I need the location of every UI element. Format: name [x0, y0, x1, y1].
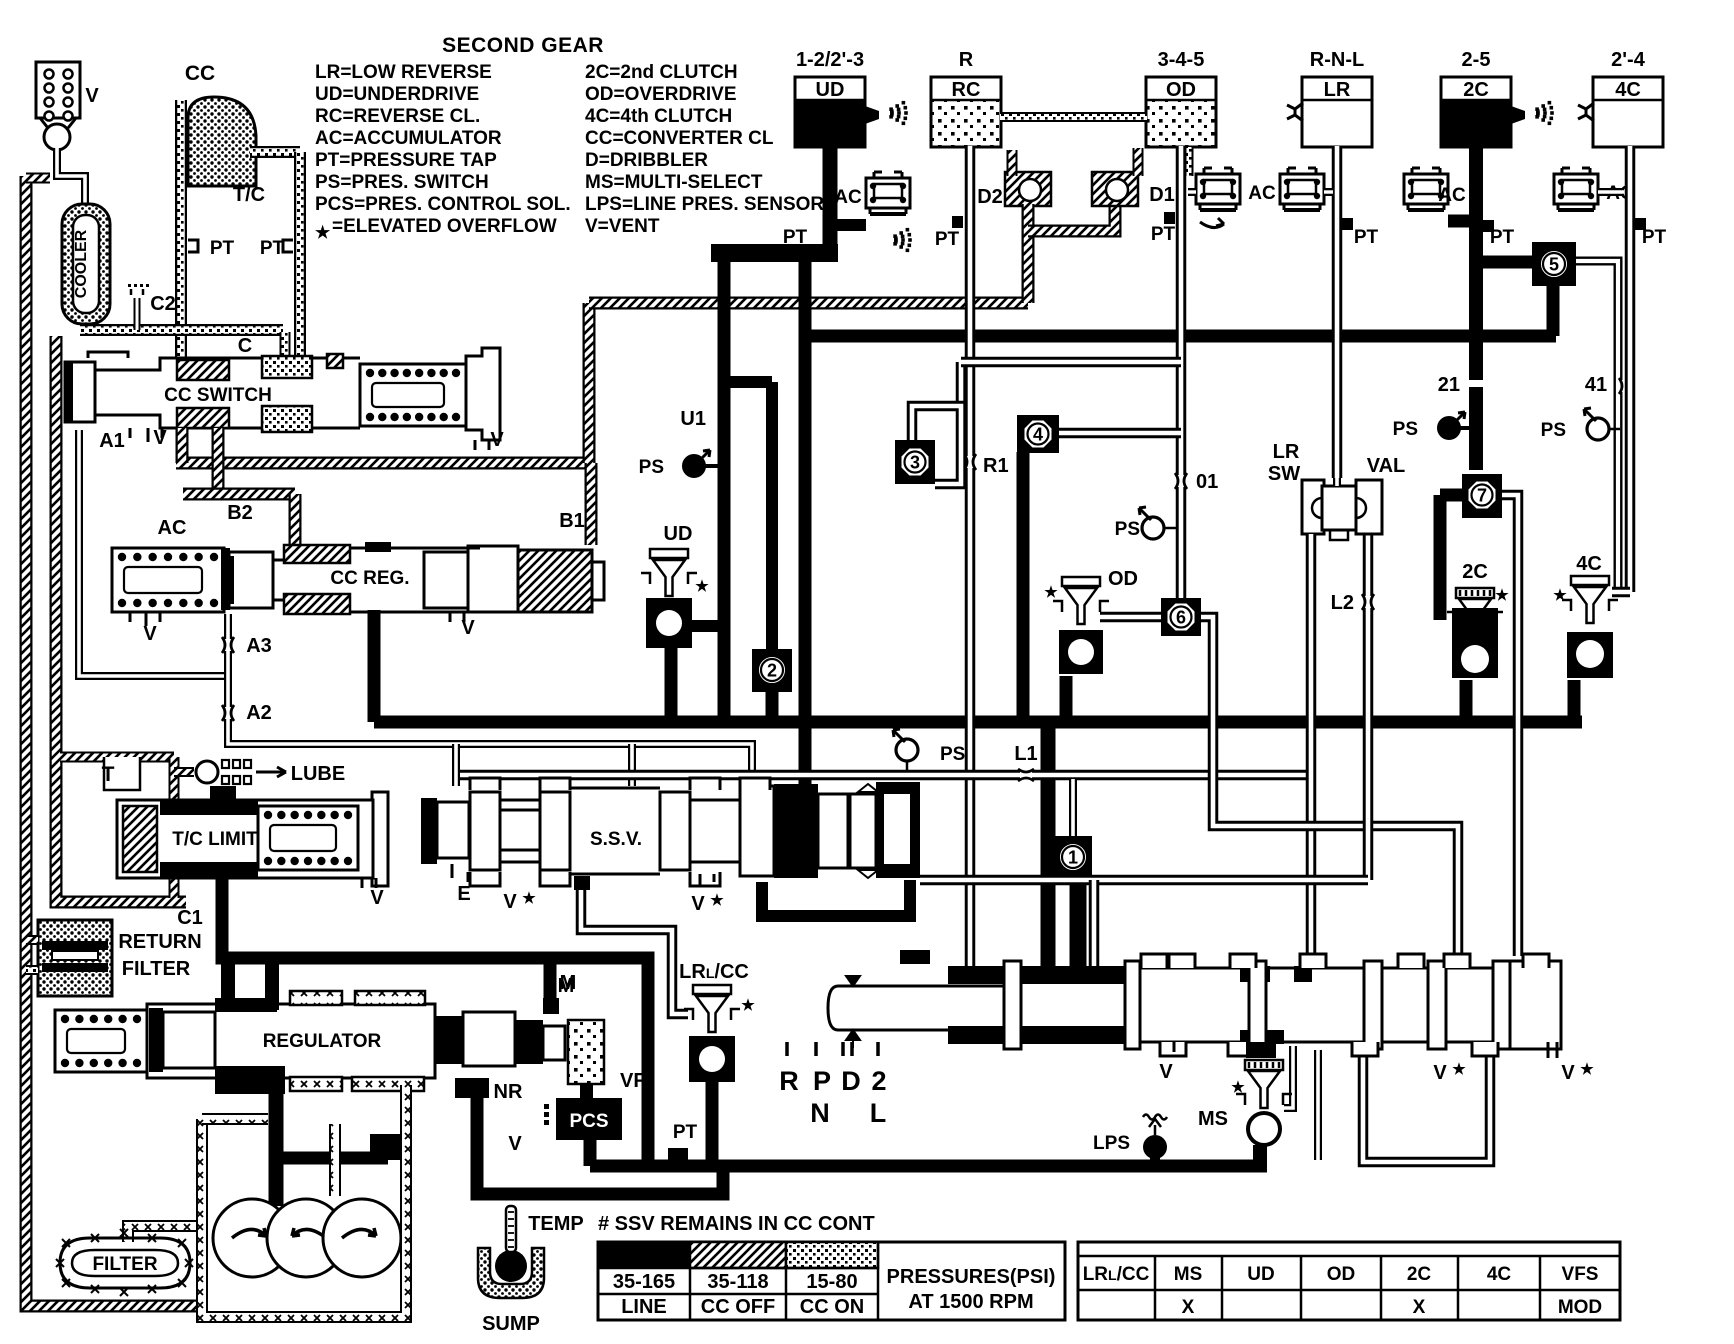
svg-text:PT: PT: [783, 227, 808, 248]
svg-text:REGULATOR: REGULATOR: [263, 1031, 382, 1052]
svg-text:MOD: MOD: [1558, 1297, 1602, 1318]
svg-text:2C: 2C: [1462, 561, 1488, 583]
svg-text:AC: AC: [158, 517, 187, 539]
svg-text:L1: L1: [1014, 743, 1037, 765]
end flange CC switch: [466, 348, 500, 440]
wire A3/A2 vertical: [228, 614, 752, 780]
svg-text:UD: UD: [816, 79, 845, 101]
pump pressure feed: [269, 1078, 284, 1206]
svg-text:7: 7: [1477, 486, 1487, 506]
accumulator AC by 4C: [1554, 174, 1598, 204]
svg-text:X: X: [1413, 1297, 1426, 1318]
wire LR AC stub: [1324, 188, 1333, 196]
wire UD sol drop: [665, 648, 678, 722]
torque converter dome T/C: [188, 97, 256, 186]
svg-text:FILTER: FILTER: [92, 1254, 157, 1275]
wire vent to cooler: [57, 148, 85, 206]
wire SSV feed vertical: [799, 253, 812, 790]
svg-text:4C: 4C: [1576, 553, 1602, 575]
svg-text:LRL/CC: LRL/CC: [679, 961, 749, 983]
PCS pressure control solenoid: [556, 1098, 622, 1140]
curl under OD AC: [1200, 218, 1224, 228]
wire 3-loop riser: [956, 362, 967, 406]
hatched pipe second return line: [56, 336, 186, 902]
svg-text:D: D: [841, 1066, 861, 1096]
wire C2 stub: [134, 298, 141, 330]
thick stubs regulator top: [221, 958, 235, 1006]
wire 2C line to 7: [1469, 336, 1483, 470]
svg-text:A2: A2: [246, 702, 272, 724]
manual valve stem: [828, 986, 1004, 1030]
wire U1 vertical: [718, 262, 731, 722]
valve check 2: [752, 649, 792, 692]
wire L2 to valve: [920, 875, 1368, 886]
nozzle left of 4C: [1578, 103, 1594, 121]
svg-text:★: ★: [315, 223, 331, 242]
legend table left: [598, 1242, 1065, 1320]
svg-text:PS: PS: [1115, 519, 1140, 540]
dotted pipe right channel down to CC switch: [294, 152, 306, 360]
node R1: [964, 456, 976, 468]
valve CC SWITCH body: [65, 358, 482, 428]
node 21: [1468, 380, 1484, 387]
node A2: [222, 707, 234, 719]
svg-text:2C=2nd CLUTCH: 2C=2nd CLUTCH: [585, 62, 738, 83]
svg-text:A3: A3: [246, 635, 272, 657]
spools CC REG right: [424, 552, 468, 608]
svg-text:2: 2: [871, 1066, 886, 1096]
SSV black section: [774, 784, 818, 878]
SSV right cap: [876, 782, 920, 878]
svg-text:CC=CONVERTER CL: CC=CONVERTER CL: [585, 128, 774, 149]
wire NR drop: [477, 1078, 723, 1194]
manual valve port stubs: [900, 950, 930, 964]
svg-text:E: E: [457, 883, 470, 905]
svg-text:V: V: [1433, 1062, 1447, 1084]
solenoid VF filter: [568, 1020, 604, 1084]
svg-text:4C=4th CLUTCH: 4C=4th CLUTCH: [585, 106, 732, 127]
svg-text:4: 4: [1033, 425, 1043, 445]
valve check 4: [1017, 415, 1059, 453]
svg-text:UD: UD: [1247, 1264, 1274, 1285]
svg-text:X: X: [1182, 1297, 1195, 1318]
cooler: [62, 204, 110, 324]
svg-text:L: L: [870, 1098, 887, 1128]
wire 4C housing to bus: [1568, 680, 1581, 716]
svg-text:PT: PT: [673, 1122, 698, 1143]
dribbler D1 block: [1092, 172, 1138, 206]
wire 5 drop to bus: [1547, 284, 1560, 336]
svg-text:★: ★: [695, 578, 709, 595]
hatch block CC REG bottom: [284, 594, 350, 614]
hatched pipe far-left return line: [26, 176, 208, 1306]
node A3: [222, 639, 234, 651]
svg-text:3: 3: [910, 453, 920, 473]
wire LPS stub: [1150, 1155, 1160, 1166]
svg-text:PS: PS: [1393, 419, 1418, 440]
hatched pipe D-line to D2: [589, 297, 1028, 310]
hatched pipe riser CC switch to B2: [176, 428, 189, 463]
wire A1 line: [79, 430, 228, 676]
clutch 2C: [1441, 100, 1511, 147]
svg-text:PS=PRES. SWITCH: PS=PRES. SWITCH: [315, 172, 489, 193]
wire C1 thick: [222, 878, 648, 1166]
svg-text:35-165: 35-165: [613, 1271, 675, 1293]
svg-text:TEMP: TEMP: [528, 1213, 584, 1235]
svg-text:41: 41: [1585, 374, 1607, 396]
manual valve end chamber: [1510, 961, 1561, 1049]
svg-text:OD: OD: [1327, 1264, 1356, 1285]
clutch 4C: [1593, 77, 1663, 147]
hatch stub CC switch: [327, 354, 343, 368]
svg-text:C2: C2: [150, 293, 176, 315]
clutch OD: [1146, 100, 1216, 147]
svg-text:PT: PT: [1151, 224, 1176, 245]
svg-text:R: R: [779, 1066, 799, 1096]
pressure switch PS on O1 line: [1142, 517, 1164, 539]
svg-text:AT 1500 RPM: AT 1500 RPM: [908, 1291, 1033, 1313]
wire LR drop: [1332, 146, 1343, 478]
manual valve bottom ports: [1160, 1042, 1186, 1056]
svg-text:LINE: LINE: [621, 1296, 667, 1318]
dotted pipe cooler to CC switch: [80, 324, 283, 336]
wire 7 to 2C sol: [1440, 489, 1462, 502]
sump: [478, 1248, 544, 1298]
svg-text:NR: NR: [494, 1081, 523, 1103]
wire ball4 drop: [1017, 452, 1030, 722]
pump 1: [213, 1199, 291, 1277]
svg-text:B2: B2: [227, 502, 253, 524]
svg-text:LR: LR: [1273, 441, 1300, 463]
svg-text:PS: PS: [940, 744, 965, 765]
svg-text:AC: AC: [834, 187, 862, 208]
svg-text:FILTER: FILTER: [122, 958, 191, 980]
svg-text:A1: A1: [99, 430, 125, 452]
hatched T enclosure: [60, 752, 174, 763]
svg-text:CC ON: CC ON: [800, 1296, 864, 1318]
svg-text:PCS: PCS: [569, 1111, 608, 1132]
svg-text:V: V: [691, 893, 705, 915]
svg-text:SUMP: SUMP: [482, 1313, 540, 1335]
dotted block CC switch top: [262, 356, 312, 378]
sprayer right of 2C: [1511, 106, 1525, 124]
accumulator AC by OD: [1196, 174, 1240, 204]
wire 7 right drop: [1501, 495, 1518, 956]
svg-text:5: 5: [1549, 255, 1559, 275]
wire MS drop: [1253, 1145, 1267, 1166]
node O1: [1175, 475, 1187, 487]
wire UD sol link: [692, 620, 718, 632]
REGULATOR right blocks: [435, 1016, 463, 1064]
filter capsule: [60, 1238, 190, 1288]
xhatch stubs REGULATOR top: [290, 991, 342, 1005]
svg-text:D2: D2: [977, 186, 1003, 208]
spring T/C LIMIT: [258, 806, 358, 870]
dotted pipe CC left wall: [175, 100, 187, 362]
svg-text:★: ★: [1580, 1061, 1594, 1078]
hatched pipe CC switch lower riser: [212, 428, 225, 494]
wire valve drop to bus: [1314, 1050, 1322, 1160]
pressure switch PS on L1: [896, 739, 918, 761]
svg-text:LUBE: LUBE: [291, 763, 345, 785]
wire 5 to 41 line: [1575, 261, 1618, 592]
wire O1 drop: [1176, 146, 1187, 598]
SSV recirculation loop: [762, 880, 910, 916]
svg-text:C1: C1: [177, 907, 203, 929]
port M: [543, 998, 559, 1014]
svg-text:LR=LOW REVERSE: LR=LOW REVERSE: [315, 62, 492, 83]
svg-text:OD=OVERDRIVE: OD=OVERDRIVE: [585, 84, 737, 105]
svg-text:# SSV REMAINS IN CC CONT: # SSV REMAINS IN CC CONT: [598, 1213, 875, 1235]
wire main bus: [374, 716, 1582, 729]
svg-text:2'-4: 2'-4: [1611, 49, 1646, 71]
spray under UD AC: [893, 234, 897, 238]
svg-text:SECOND GEAR: SECOND GEAR: [442, 34, 604, 57]
svg-text:CC REG.: CC REG.: [330, 568, 409, 589]
svg-text:2C: 2C: [1463, 79, 1489, 101]
svg-text:V: V: [1561, 1062, 1575, 1084]
svg-text:MS: MS: [1174, 1264, 1203, 1285]
selector ticks: [785, 1042, 789, 1056]
svg-text:21: 21: [1438, 374, 1460, 396]
svg-text:T: T: [102, 763, 115, 786]
svg-text:CC OFF: CC OFF: [701, 1296, 775, 1318]
wire OD sol drop: [1060, 676, 1073, 722]
svg-text:PS: PS: [639, 457, 664, 478]
wire manual valve feed: [1041, 722, 1056, 966]
svg-text:2: 2: [767, 661, 777, 681]
accumulator AC by UD: [866, 178, 910, 208]
wire 2C clutch drop: [1469, 146, 1483, 470]
wire L1: [460, 770, 1311, 781]
pressure switch PS on U1: [683, 455, 705, 477]
clutch RC: [931, 100, 1001, 147]
hatched pipe D2 to D1: [1028, 206, 1115, 231]
svg-text:L2: L2: [1331, 592, 1354, 614]
valve check 3: [895, 440, 935, 484]
wire 4C drop: [1625, 146, 1636, 592]
svg-text:4C: 4C: [1487, 1264, 1512, 1285]
wire A-line drops into SSV: [452, 744, 460, 786]
dotted pipe dome to right channel: [250, 146, 300, 158]
SSV top bumps: [470, 778, 500, 790]
svg-text:T/C: T/C: [233, 184, 265, 206]
xhatch suction loop: [202, 1085, 406, 1317]
wire OD sol to 6: [1100, 612, 1161, 623]
black stub T/C limit top: [210, 786, 236, 802]
accumulator AC by LR: [1280, 174, 1324, 204]
wire CC REG drop: [368, 610, 381, 722]
svg-text:M: M: [558, 975, 575, 997]
svg-text:2-5: 2-5: [1462, 49, 1491, 71]
svg-text:RETURN: RETURN: [118, 931, 201, 953]
wire LRL/CC drop: [706, 1082, 719, 1166]
accumulator AC by 2C: [1404, 174, 1448, 204]
svg-text:PT: PT: [1642, 227, 1667, 248]
lube regulator: [174, 767, 194, 777]
svg-text:PT: PT: [935, 229, 960, 250]
wire 3 loop: [912, 406, 961, 484]
svg-text:U1: U1: [680, 408, 706, 430]
svg-text:LPS: LPS: [1093, 1133, 1130, 1154]
svg-text:VF: VF: [620, 1070, 646, 1092]
svg-text:★: ★: [1495, 587, 1509, 604]
wire LR into valve: [1333, 478, 1341, 486]
manual valve lands: [1004, 961, 1021, 1049]
svg-text:★: ★: [1044, 584, 1058, 601]
valve CC REG body: [221, 545, 592, 615]
svg-text:C: C: [238, 335, 252, 357]
svg-text:UD: UD: [664, 523, 693, 545]
hatched pipe B2 upper horizontal: [176, 457, 593, 470]
wire 2C AC stub: [1448, 215, 1469, 228]
svg-text:D=DRIBBLER: D=DRIBBLER: [585, 150, 708, 171]
svg-text:15-80: 15-80: [806, 1271, 857, 1293]
manual valve body: [1004, 968, 1561, 1042]
svg-text:AC: AC: [1248, 183, 1276, 204]
svg-text:V: V: [490, 429, 504, 451]
node L2: [1362, 596, 1374, 608]
nozzle left of LR: [1287, 103, 1303, 121]
dotted pipe RC to OD: [1000, 112, 1147, 122]
valve REGULATOR body: [147, 1004, 435, 1078]
wire UD PT bar: [711, 244, 838, 262]
svg-text:=ELEVATED OVERFLOW: =ELEVATED OVERFLOW: [332, 216, 557, 237]
hatched pipe B2 into CC REG: [289, 494, 302, 547]
manual valve top ports: [1141, 954, 1167, 968]
svg-text:4C: 4C: [1615, 79, 1641, 101]
wire 2C sol to bus: [1460, 680, 1473, 716]
hatched pipe B1 riser: [583, 303, 596, 463]
node 41: [1619, 380, 1631, 392]
hatch block CC switch bottom: [177, 408, 229, 428]
svg-text:1: 1: [1068, 848, 1078, 868]
svg-text:PT: PT: [1354, 227, 1379, 248]
valve REGULATOR spring: [55, 1010, 147, 1072]
svg-text:V: V: [508, 1133, 522, 1155]
svg-text:OD: OD: [1166, 79, 1196, 101]
piston AC-CCREG: [224, 556, 234, 604]
valve check 7: [1462, 474, 1502, 518]
wire RC drop: [965, 146, 976, 968]
svg-text:OD: OD: [1108, 568, 1138, 590]
svg-text:★: ★: [1452, 1061, 1466, 1078]
hatched stub OD to D1 feed: [1133, 148, 1144, 176]
svg-text:R: R: [959, 49, 974, 71]
svg-text:CC: CC: [185, 62, 215, 85]
pressure switch PS on 41 line: [1587, 418, 1609, 440]
svg-text:6: 6: [1176, 608, 1186, 628]
hatch block CC REG top: [284, 545, 350, 563]
hatched pipe B2 lower horizontal: [183, 488, 295, 501]
wire MS riser: [1284, 1046, 1293, 1108]
svg-text:RC=REVERSE CL.: RC=REVERSE CL.: [315, 106, 480, 127]
valve check 1: [1054, 836, 1092, 878]
clutch LR: [1302, 77, 1372, 147]
hatched stub into return filter: [26, 935, 38, 945]
sprayer right of UD: [865, 106, 879, 124]
thermometer TEMP: [506, 1206, 516, 1252]
wire 6 right path: [1200, 617, 1458, 956]
wire L2 drop: [1363, 534, 1374, 880]
wire UD-AC stub: [836, 219, 866, 231]
svg-text:AC: AC: [1438, 185, 1466, 206]
pump 3: [323, 1199, 401, 1277]
wire ball2 drop: [766, 692, 779, 722]
svg-text:COOLER: COOLER: [73, 229, 90, 298]
hatched stub RC to D2 feed: [1007, 150, 1018, 176]
svg-text:3-4-5: 3-4-5: [1158, 49, 1205, 71]
svg-text:1-2/2'-3: 1-2/2'-3: [796, 49, 864, 71]
svg-text:RC: RC: [952, 79, 981, 101]
dotted stub C into CC switch: [280, 332, 291, 356]
wire 5 link: [1483, 256, 1537, 269]
svg-text:V: V: [1159, 1061, 1173, 1083]
dribbler C2 spray: [128, 284, 131, 287]
svg-text:R-N-L: R-N-L: [1310, 49, 1364, 71]
wire OD AC stub: [1188, 188, 1196, 196]
wire 3 to O1 link: [961, 357, 1181, 368]
accumulator AC spring left of CC REG: [112, 548, 224, 612]
dribbler D2 block: [1005, 172, 1051, 206]
svg-text:S.S.V.: S.S.V.: [590, 829, 642, 850]
wire 4C sol feed: [1612, 587, 1630, 598]
node L1: [1020, 769, 1032, 781]
svg-text:CC SWITCH: CC SWITCH: [164, 385, 272, 406]
svg-text:35-118: 35-118: [707, 1271, 768, 1293]
svg-text:LRL/CC: LRL/CC: [1083, 1264, 1150, 1285]
manual valve black bands: [948, 966, 1006, 984]
pump 2: [267, 1199, 345, 1277]
hatch spring CC REG right: [518, 550, 592, 612]
svg-text:V: V: [143, 623, 157, 645]
wire branch to ball2: [724, 376, 772, 388]
svg-text:★: ★: [741, 997, 755, 1014]
svg-text:V: V: [85, 85, 99, 107]
svg-text:★: ★: [1553, 587, 1567, 604]
svg-text:UD=UNDERDRIVE: UD=UNDERDRIVE: [315, 84, 479, 105]
wire UD clutch drop: [823, 146, 838, 253]
svg-text:★: ★: [522, 890, 536, 907]
svg-text:PS: PS: [1541, 420, 1566, 441]
svg-text:2C: 2C: [1407, 1264, 1432, 1285]
wire second bus y336: [805, 330, 1556, 343]
svg-text:SW: SW: [1268, 463, 1300, 485]
svg-text:LPS=LINE PRES. SENSOR: LPS=LINE PRES. SENSOR: [585, 194, 824, 215]
svg-text:PT: PT: [210, 238, 235, 259]
svg-text:PT=PRESSURE TAP: PT=PRESSURE TAP: [315, 150, 497, 171]
return filter: [38, 920, 112, 996]
svg-text:VAL: VAL: [1367, 455, 1406, 477]
svg-text:MS: MS: [1198, 1108, 1228, 1130]
legend table right: [1078, 1242, 1620, 1320]
svg-text:D1: D1: [1149, 184, 1175, 206]
hatch block CC switch top: [177, 360, 229, 380]
svg-text:B1: B1: [559, 510, 585, 532]
wire M line: [581, 884, 688, 1014]
svg-text:LR: LR: [1324, 79, 1351, 101]
SSV bottom bumps: [470, 872, 500, 886]
svg-text:V: V: [370, 887, 384, 909]
vent stack V top-left: [36, 62, 80, 118]
hatched pipe B1 into CC REG: [585, 463, 598, 545]
wire LRSW left drop: [1306, 534, 1317, 775]
svg-text:VFS: VFS: [1562, 1264, 1599, 1285]
wire 4 link to O1: [1056, 428, 1181, 439]
svg-text:★: ★: [1231, 1079, 1245, 1096]
dotted block CC switch bottom: [262, 406, 312, 432]
pressure switch PS on 2C line: [1438, 417, 1460, 439]
